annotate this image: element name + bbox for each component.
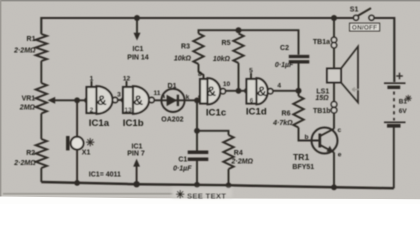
white strip below figure: [0, 197, 420, 205]
svg-text:TB1a: TB1a: [313, 39, 330, 46]
power arrow to IC1 pin 14: [136, 18, 138, 33]
wire IC1b output pin 11 to diode D1: [154, 99, 197, 101]
junction node: IC1b tied inputs: [121, 97, 127, 103]
svg-text:R3: R3: [181, 43, 190, 50]
svg-text:B1: B1: [399, 99, 408, 106]
svg-text:3: 3: [117, 91, 121, 98]
svg-text:0·1µF: 0·1µF: [275, 62, 294, 69]
svg-text:IC1a: IC1a: [89, 118, 110, 129]
NAND gate IC1a body: [97, 86, 113, 114]
wire IC1d output pin 4 to C2/R6 node: [273, 90, 299, 92]
svg-text:IC1c: IC1c: [206, 107, 227, 118]
junction node: R4 branch: [194, 128, 200, 134]
wire TR1 emitter to bottom rail: [333, 152, 335, 187]
svg-text:PIN 14: PIN 14: [127, 54, 149, 61]
microphone insert X1: [66, 136, 70, 150]
svg-text:&: &: [206, 84, 216, 99]
wire R2 to bottom rail: [40, 168, 42, 182]
junction node: R5 top: [236, 27, 242, 33]
svg-text:VR1: VR1: [22, 95, 36, 102]
svg-text:R6: R6: [282, 110, 291, 117]
faint scan ghost mark: [352, 88, 359, 92]
wire: top positive supply rail: [41, 18, 353, 34]
svg-text:IC1d: IC1d: [246, 107, 267, 118]
wire R1 to VR1: [40, 61, 42, 83]
junction node: D1 cathode / IC1c pin 9 / C1: [194, 98, 200, 104]
svg-text:BFY51: BFY51: [292, 164, 314, 171]
svg-text:R4: R4: [234, 150, 243, 157]
svg-text:11: 11: [154, 90, 161, 97]
svg-text:e: e: [338, 151, 342, 158]
svg-text:15Ω: 15Ω: [315, 95, 329, 102]
svg-text:2: 2: [90, 107, 94, 114]
svg-text:R1: R1: [27, 36, 36, 43]
resistor R4: [223, 135, 233, 169]
svg-text:X1: X1: [82, 149, 91, 156]
wire: rail from switch S1 to battery corner: [374, 18, 394, 82]
svg-text:R5: R5: [222, 40, 231, 47]
wire into IC1c pin 9: [197, 99, 201, 101]
wire R6 to TR1 base: [299, 128, 320, 141]
svg-text:4·7kΩ: 4·7kΩ: [272, 120, 293, 127]
svg-text:12: 12: [123, 76, 131, 83]
NAND gate IC1a input box: [87, 87, 97, 113]
wire R4 to bottom rail: [228, 169, 230, 185]
junction node: wiper line to X1: [74, 97, 80, 103]
svg-text:8: 8: [198, 71, 202, 78]
svg-text:1: 1: [90, 76, 94, 83]
resistor R5: [233, 34, 243, 64]
svg-text:ON/OFF: ON/OFF: [352, 24, 377, 31]
wire C2 bottom to node: [298, 64, 300, 91]
wire rail to TB1a: [333, 18, 335, 37]
svg-text:10kΩ: 10kΩ: [213, 56, 231, 63]
terminal TB1b: [331, 102, 337, 108]
svg-text:TR1: TR1: [293, 152, 309, 162]
diode D1 OA202: [161, 89, 184, 112]
scan edge left: [0, 0, 1, 197]
svg-text:S1: S1: [350, 7, 359, 14]
loudspeaker LS1: [327, 69, 341, 83]
svg-text:TB1b: TB1b: [313, 108, 331, 115]
wire: bottom 0V rail: [41, 182, 394, 188]
IC1a top pin stub 1: [91, 81, 93, 87]
capacitor C1: [188, 150, 209, 154]
svg-text:C2: C2: [280, 45, 289, 52]
svg-text:&: &: [257, 84, 267, 99]
junction node: IC1a input: [84, 97, 90, 103]
junction node: IC1 pin 14 supply tap: [134, 15, 140, 21]
NAND gate IC1c input box: [200, 79, 208, 104]
NAND gate IC1b body: [133, 86, 149, 114]
svg-text:IC1b: IC1b: [123, 118, 144, 129]
NAND gate IC1c body: [208, 78, 221, 104]
wire R3 to IC1c pin 8: [199, 64, 204, 79]
see text note: [176, 193, 184, 195]
wire LS1 to TB1b: [333, 83, 335, 102]
NAND gate IC1c output inversion bubble: [220, 89, 225, 94]
resistor R2: [36, 139, 47, 168]
IC1d top pin stub 5: [250, 73, 252, 79]
battery B1 6V: [396, 75, 403, 77]
terminal TB1a: [331, 37, 336, 42]
svg-text:4: 4: [277, 83, 281, 90]
svg-text:0·1µF: 0·1µF: [173, 166, 192, 173]
svg-text:2MΩ: 2MΩ: [19, 105, 36, 112]
IC1b top pin stub 12: [126, 81, 128, 87]
svg-text:&: &: [133, 93, 143, 108]
svg-text:2·2MΩ: 2·2MΩ: [231, 159, 254, 166]
NAND gate IC1b input box: [123, 87, 133, 113]
svg-text:2·2MΩ: 2·2MΩ: [13, 48, 36, 55]
wire X1 to bottom rail: [76, 150, 78, 183]
wire C1 to bottom rail: [196, 161, 198, 185]
wire X1 branch down: [76, 100, 78, 137]
wire battery to bottom rail: [393, 128, 395, 189]
figure bottom border smudge: [3, 193, 183, 195]
NAND gate IC1d body: [257, 78, 268, 104]
svg-text:R2: R2: [26, 150, 35, 157]
svg-text:IC1= 4011: IC1= 4011: [89, 172, 121, 179]
svg-text:IC1: IC1: [133, 46, 144, 53]
wire junction to C1: [196, 100, 198, 150]
wire TB1b to TR1 collector: [333, 113, 335, 129]
junction node: R5 / IC1c out / IC1d in: [236, 88, 242, 94]
wire IC1a output pin 3 to IC1b: [118, 99, 123, 101]
capacitor C2: [289, 55, 310, 58]
NAND gate IC1b output inversion bubble: [149, 97, 154, 102]
resistor R1: [36, 34, 47, 61]
svg-text:13: 13: [124, 107, 132, 114]
svg-text:k: k: [186, 94, 190, 101]
svg-text:b: b: [304, 134, 308, 141]
scan edge top: [0, 0, 420, 1]
NAND gate IC1d output inversion bubble: [268, 89, 273, 94]
wire TB1a to LS1: [333, 48, 335, 69]
svg-text:5: 5: [249, 68, 253, 75]
junction node: X1 on bottom rail: [74, 180, 80, 186]
NAND gate IC1a output inversion bubble: [113, 97, 118, 102]
junction node: IC1d tied inputs: [244, 88, 250, 94]
junction node: pin4 / C2 / R6: [296, 88, 302, 94]
svg-text:6V: 6V: [399, 108, 408, 115]
svg-text:6: 6: [250, 97, 254, 104]
NAND gate IC1d input box: [247, 79, 257, 104]
wire R4 branch: [197, 131, 229, 135]
svg-text:10: 10: [223, 81, 231, 88]
resistor R6: [298, 91, 300, 96]
svg-text:C1: C1: [178, 156, 187, 163]
svg-text:IC1: IC1: [132, 143, 143, 150]
switch S1 ON/OFF: [354, 15, 359, 20]
svg-text:OA202: OA202: [161, 117, 183, 124]
potentiometer VR1: [36, 83, 47, 114]
svg-text:D1: D1: [168, 83, 177, 90]
wire R5 down to gate c-d net: [238, 63, 240, 91]
resistor R3: [193, 34, 203, 65]
svg-text:&: &: [97, 93, 107, 108]
wire VR1 to R2: [40, 114, 42, 140]
transistor TR1 BFY51: [312, 128, 338, 154]
wire IC1c output pin 10 to IC1d: [226, 90, 247, 92]
svg-text:PIN 7: PIN 7: [127, 151, 145, 158]
svg-text:10kΩ: 10kΩ: [174, 56, 192, 63]
power arrow IC1 pin 7 from 0V rail: [133, 181, 139, 187]
paper patch behind see-text note: [172, 188, 232, 198]
junction node: speaker tap on top rail: [331, 15, 337, 21]
svg-text:2·2MΩ: 2·2MΩ: [13, 160, 36, 167]
wire: oscillator feedback top wire: [199, 30, 299, 54]
svg-text:c: c: [338, 127, 342, 134]
svg-text:SEE TEXT: SEE TEXT: [187, 191, 226, 200]
